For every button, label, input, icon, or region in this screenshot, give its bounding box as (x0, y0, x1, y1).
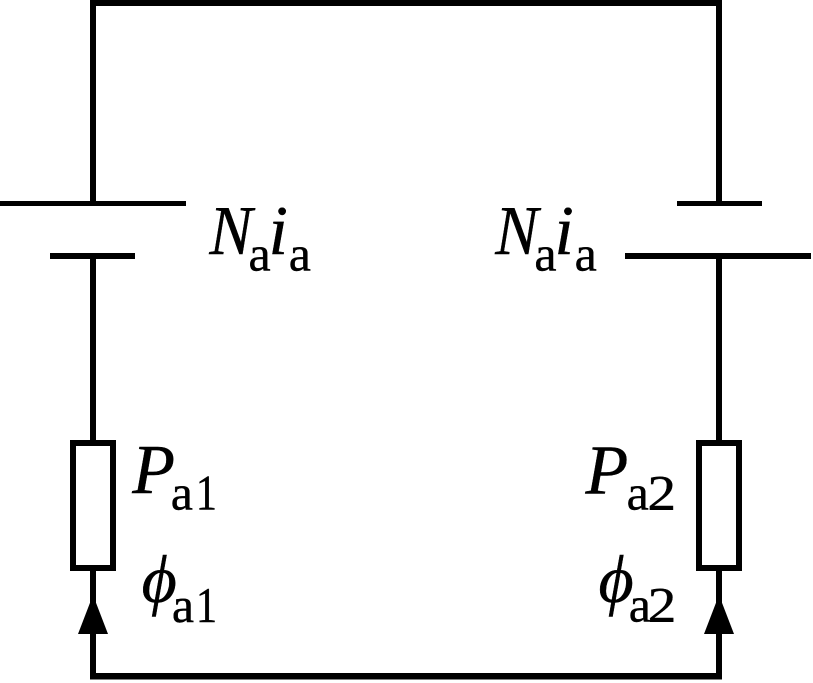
svg-text:a: a (249, 226, 271, 282)
svg-text:a: a (534, 226, 556, 282)
mmf source right (Na ia): short plate (677, 201, 762, 206)
wire: bottom horizontal (90, 673, 722, 680)
svg-text:1: 1 (196, 466, 217, 521)
svg-text:a: a (289, 226, 311, 282)
wire: top horizontal (90, 0, 722, 6)
label Na ia (left) (208, 192, 310, 282)
svg-text:P: P (131, 432, 175, 509)
wire: left branch lower segment (90, 568, 96, 679)
svg-text:i: i (554, 193, 573, 270)
svg-text:a: a (575, 226, 597, 282)
label Na ia (right) (494, 192, 596, 282)
permeance Pa1 (rectangle) (73, 443, 113, 568)
mmf source left (Na ia): short plate (50, 253, 135, 259)
wire: right branch upper segment (716, 0, 722, 206)
flux direction arrow (left branch) (78, 595, 108, 634)
svg-text:P: P (585, 433, 629, 510)
svg-text:1: 1 (196, 579, 217, 634)
label Pa2 (585, 433, 677, 521)
svg-text:a: a (172, 577, 194, 633)
permeance Pa2 (rectangle) (699, 443, 739, 568)
svg-text:a: a (627, 465, 649, 521)
svg-text:i: i (269, 193, 288, 270)
mmf source left (Na ia): long plate (0, 201, 186, 206)
label phi a2 (599, 541, 677, 633)
wire: right branch middle segment (716, 253, 722, 443)
mmf source right (Na ia): long plate (625, 253, 811, 259)
svg-text:2: 2 (648, 577, 677, 633)
svg-text:2: 2 (647, 465, 676, 521)
wire: right branch lower segment (716, 568, 722, 679)
label Pa1 (131, 432, 217, 521)
svg-text:a: a (171, 465, 193, 521)
flux direction arrow (right branch) (704, 595, 734, 634)
wire: left branch middle segment (90, 253, 96, 443)
wire: left branch upper segment (90, 0, 96, 206)
label phi a1 (142, 541, 218, 634)
